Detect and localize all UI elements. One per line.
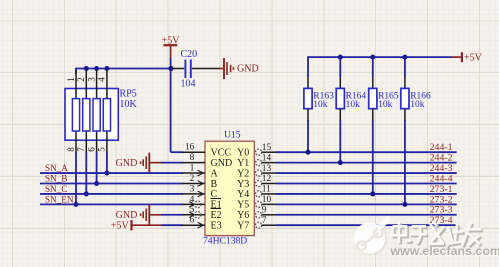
- svg-text:8: 8: [190, 153, 195, 163]
- svg-text:RP5: RP5: [120, 89, 137, 100]
- wire R165 to row: [372, 120, 374, 194]
- junction: [84, 191, 89, 196]
- RP5 pin numbers 1-4: [66, 77, 107, 82]
- svg-text:Y7: Y7: [237, 221, 249, 232]
- junction R165 top: [370, 55, 375, 60]
- svg-text:+5V: +5V: [111, 221, 130, 232]
- wire R166 to row: [404, 120, 406, 204]
- svg-text:SN_C: SN_C: [45, 184, 67, 194]
- svg-text:244-2: 244-2: [430, 153, 453, 164]
- resistor R163 10k: [304, 56, 334, 121]
- resistor pack RP5 10K: [65, 70, 138, 153]
- U15 pin 14 (Y1): [256, 153, 278, 165]
- svg-text:273-3: 273-3: [430, 205, 453, 216]
- watermark url: [390, 244, 499, 259]
- wire net SN_EN: [40, 203, 183, 205]
- svg-text:8: 8: [66, 147, 76, 152]
- svg-text:244-1: 244-1: [430, 142, 453, 153]
- wire net 273-3: [276, 214, 457, 216]
- svg-text:7: 7: [262, 216, 267, 226]
- wire net 273-1: [276, 193, 457, 195]
- U15 pin 13 (Y2): [256, 164, 278, 176]
- capacitor C20 104: [172, 49, 220, 90]
- svg-text:15: 15: [262, 143, 272, 153]
- svg-text:+5V: +5V: [162, 35, 181, 46]
- U15 right pin names Y0-Y7: [237, 148, 249, 232]
- U15 pin 10 (Y5): [256, 195, 278, 207]
- junction: [370, 191, 375, 196]
- svg-text:10k: 10k: [410, 100, 425, 110]
- resistor R165 10k: [369, 56, 399, 121]
- resistor R164 10k: [336, 56, 366, 121]
- svg-text:U15: U15: [224, 130, 241, 141]
- svg-text:12: 12: [262, 174, 272, 184]
- svg-text:1: 1: [190, 163, 195, 173]
- svg-text:Y6: Y6: [237, 210, 249, 221]
- svg-text:13: 13: [262, 164, 272, 174]
- RP5 pin numbers 8-5: [66, 147, 107, 152]
- wire net SN_B: [40, 182, 183, 184]
- svg-text:10: 10: [262, 195, 272, 205]
- svg-text:Y5: Y5: [237, 200, 249, 211]
- junction RP5 pin 4: [104, 66, 109, 71]
- svg-text:244-3: 244-3: [430, 163, 453, 174]
- svg-text:Y3: Y3: [237, 179, 249, 190]
- U15 pin 6: [182, 216, 205, 228]
- svg-text:273-1: 273-1: [430, 184, 453, 195]
- svg-text:10k: 10k: [346, 100, 361, 110]
- wire net SN_C: [40, 193, 183, 195]
- wire +5V stem to node: [170, 58, 172, 70]
- junction RP5 pin 3: [94, 66, 99, 71]
- wire net 273-4: [276, 224, 457, 226]
- svg-text:2: 2: [76, 77, 86, 82]
- power GND (U15 pin 8): [116, 153, 162, 173]
- power +5V (top, VCC node): [162, 35, 181, 58]
- svg-text:4: 4: [97, 77, 107, 82]
- svg-text:6: 6: [190, 216, 195, 226]
- wire R164 to row: [339, 120, 341, 163]
- svg-text:SN_EN: SN_EN: [45, 194, 74, 204]
- junction: [306, 150, 311, 155]
- U15 pin 1: [182, 163, 205, 175]
- svg-text:5: 5: [97, 147, 107, 152]
- svg-text:GND: GND: [116, 158, 138, 169]
- wire GND to pin 8: [161, 162, 183, 164]
- junction: [74, 202, 79, 207]
- U15 pin 15 (Y0): [256, 143, 278, 155]
- watermark text (stylized): [393, 221, 484, 247]
- svg-text:11: 11: [262, 185, 271, 195]
- svg-text:C20: C20: [181, 49, 198, 60]
- junction +5V/C20/VCC node: [168, 66, 173, 71]
- U15 pin 4: [182, 195, 205, 208]
- svg-text:Y1: Y1: [237, 158, 249, 169]
- svg-text:SN_B: SN_B: [45, 173, 67, 183]
- U15 pin 7 (Y7): [256, 216, 278, 228]
- U15 pin 16: [182, 143, 205, 153]
- svg-text:16: 16: [185, 143, 195, 153]
- U15 pin 3: [182, 184, 205, 196]
- svg-text:B: B: [211, 179, 218, 190]
- wire +5V pull-up rail: [308, 56, 452, 58]
- wire net 244-1: [276, 151, 457, 153]
- wire net SN_A: [40, 172, 183, 174]
- svg-text:SN_A: SN_A: [45, 163, 68, 173]
- svg-text:Y2: Y2: [237, 168, 249, 179]
- junction: [402, 202, 407, 207]
- U15 pin 2: [182, 174, 205, 186]
- svg-text:244-4: 244-4: [430, 173, 453, 184]
- wire net 244-2: [276, 162, 457, 164]
- wire net 244-4: [276, 182, 457, 184]
- svg-text:www.elecfans.com: www.elecfans.com: [390, 244, 499, 258]
- power +5V (right): [451, 52, 483, 63]
- U15 pin 5: [182, 205, 205, 218]
- junction: [338, 160, 343, 165]
- junction R166 top: [402, 55, 407, 60]
- svg-text:273-2: 273-2: [430, 194, 453, 205]
- svg-text:1: 1: [66, 77, 76, 82]
- svg-text:10K: 10K: [120, 99, 138, 110]
- svg-text:GND: GND: [211, 158, 233, 169]
- wire RP5 pin drop x=86.3: [85, 152, 87, 194]
- wire RP5 pin drop x=96.6: [96, 152, 98, 183]
- power GND (U15 pin 5): [116, 205, 162, 225]
- svg-text:6: 6: [86, 147, 96, 152]
- svg-text:74HC138D: 74HC138D: [203, 235, 247, 246]
- wire RP5 pin drop x=76: [75, 152, 77, 204]
- svg-text:A: A: [211, 168, 219, 179]
- junction: [104, 171, 109, 176]
- wire rail corner to RP5 pin 1: [75, 68, 77, 74]
- U15 left pin names: [211, 148, 233, 232]
- junction RP5 pin 2: [84, 66, 89, 71]
- svg-text:2: 2: [190, 174, 195, 184]
- svg-text:VCC: VCC: [211, 148, 232, 159]
- svg-text:3: 3: [190, 184, 195, 194]
- wire +5V to pin 6: [162, 224, 184, 226]
- watermark logo circle: [354, 219, 390, 256]
- U15 pin 8: [182, 153, 205, 163]
- junction: [94, 181, 99, 186]
- power GND (right of C20): [219, 58, 259, 79]
- svg-text:9: 9: [262, 205, 267, 215]
- svg-text:10k: 10k: [313, 100, 328, 110]
- wire RP5 pin drop x=106.9: [106, 152, 108, 173]
- svg-text:E3: E3: [211, 221, 222, 232]
- U15 pin 9 (Y6): [256, 205, 278, 217]
- wire GND to pin 5: [161, 214, 183, 216]
- power +5V (U15 pin 6): [111, 220, 162, 232]
- svg-text:E2: E2: [211, 210, 222, 221]
- svg-text:GND: GND: [116, 210, 138, 221]
- U15 pin 12 (Y3): [256, 174, 278, 186]
- IC U15 74HC138D body: [203, 130, 254, 247]
- wire net 273-2: [276, 203, 457, 205]
- svg-text:104: 104: [181, 79, 196, 90]
- svg-text:GND: GND: [237, 64, 259, 75]
- svg-text:273-4: 273-4: [430, 215, 453, 226]
- svg-text:10k: 10k: [378, 100, 393, 110]
- svg-text:7: 7: [76, 147, 86, 152]
- wire R163 to row: [307, 120, 309, 152]
- svg-text:Y0: Y0: [237, 148, 249, 159]
- U15 pin 11 (Y4): [256, 185, 278, 197]
- svg-text:14: 14: [262, 153, 272, 163]
- wire RP5 top rail: [76, 68, 172, 70]
- resistor R166 10k: [401, 56, 431, 121]
- wire node to U15 pin 16: [171, 69, 183, 153]
- junction R164 top: [338, 55, 343, 60]
- svg-text:3: 3: [86, 77, 96, 82]
- wire net 244-3: [276, 172, 457, 174]
- svg-text:Y4: Y4: [237, 189, 249, 200]
- svg-text:+5V: +5V: [464, 53, 483, 64]
